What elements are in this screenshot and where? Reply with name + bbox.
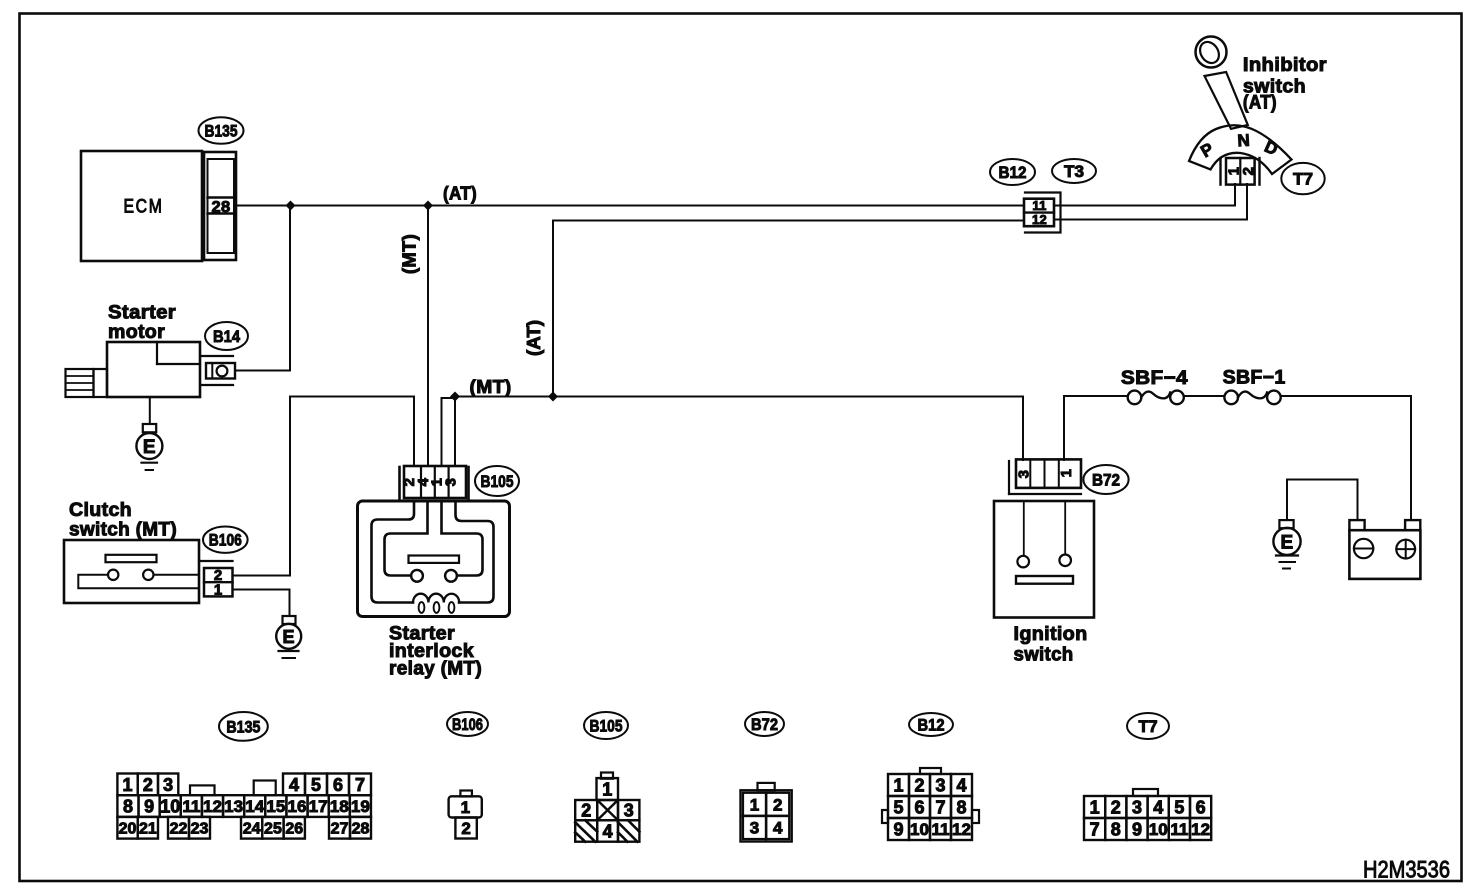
svg-text:16: 16 [288, 797, 307, 816]
svg-text:3: 3 [750, 819, 759, 838]
svg-text:12: 12 [1032, 212, 1047, 227]
svg-text:3: 3 [624, 801, 634, 821]
svg-text:12: 12 [1191, 820, 1210, 839]
svg-text:5: 5 [1174, 797, 1184, 817]
svg-text:E: E [1281, 533, 1294, 554]
svg-text:2: 2 [1111, 797, 1121, 817]
svg-text:1: 1 [1058, 469, 1075, 478]
svg-text:2: 2 [461, 819, 470, 838]
svg-text:3: 3 [935, 775, 945, 795]
svg-text:28: 28 [352, 821, 370, 838]
svg-text:1: 1 [750, 795, 759, 814]
svg-text:22: 22 [170, 821, 188, 838]
svg-text:5: 5 [311, 775, 321, 795]
svg-text:11: 11 [932, 820, 950, 839]
svg-text:switch (MT): switch (MT) [69, 520, 177, 541]
svg-text:28: 28 [212, 199, 231, 216]
svg-text:8: 8 [1111, 819, 1121, 839]
svg-text:17: 17 [309, 797, 328, 816]
svg-text:B12: B12 [918, 715, 945, 734]
svg-text:ECM: ECM [124, 197, 164, 218]
svg-text:(MT): (MT) [470, 377, 512, 397]
svg-text:B12: B12 [999, 163, 1027, 182]
svg-text:D: D [1262, 137, 1281, 159]
svg-text:SBF−4: SBF−4 [1121, 368, 1188, 389]
svg-text:18: 18 [330, 797, 349, 816]
svg-text:1: 1 [461, 798, 471, 817]
svg-text:(MT): (MT) [400, 234, 420, 274]
svg-text:2: 2 [1240, 167, 1257, 176]
svg-text:15: 15 [266, 797, 285, 816]
svg-text:Clutch: Clutch [69, 500, 132, 521]
svg-text:(AT): (AT) [524, 320, 544, 356]
svg-text:B106: B106 [209, 531, 242, 550]
svg-text:4: 4 [603, 821, 613, 841]
svg-text:19: 19 [351, 797, 370, 816]
svg-text:8: 8 [123, 797, 133, 817]
svg-text:2: 2 [773, 795, 782, 814]
svg-text:3: 3 [163, 775, 173, 795]
svg-text:T7: T7 [1139, 717, 1158, 736]
svg-text:B72: B72 [751, 715, 778, 734]
svg-text:11: 11 [182, 797, 200, 816]
svg-text:3: 3 [1132, 797, 1142, 817]
svg-text:6: 6 [333, 775, 343, 795]
svg-text:B135: B135 [226, 717, 260, 736]
svg-text:7: 7 [1090, 819, 1100, 839]
svg-text:23: 23 [191, 821, 209, 838]
svg-text:B105: B105 [481, 472, 514, 491]
svg-text:1: 1 [893, 775, 903, 795]
svg-text:B72: B72 [1092, 470, 1120, 489]
svg-text:2: 2 [581, 801, 591, 821]
svg-text:26: 26 [285, 821, 303, 838]
svg-text:B14: B14 [213, 327, 240, 346]
svg-text:1: 1 [602, 780, 612, 800]
svg-text:Inhibitor: Inhibitor [1243, 55, 1327, 76]
svg-text:10: 10 [160, 797, 180, 817]
svg-text:B135: B135 [205, 121, 238, 140]
svg-text:switch: switch [1014, 645, 1074, 666]
svg-text:5: 5 [893, 797, 903, 817]
svg-text:Starter: Starter [108, 303, 176, 324]
svg-text:E: E [143, 437, 156, 458]
svg-text:24: 24 [243, 821, 261, 838]
svg-text:T3: T3 [1064, 162, 1084, 181]
svg-text:10: 10 [1149, 820, 1168, 839]
svg-text:E: E [283, 627, 295, 647]
svg-text:1: 1 [123, 775, 133, 795]
svg-text:20: 20 [119, 821, 137, 838]
svg-text:SBF−1: SBF−1 [1223, 368, 1286, 389]
svg-text:1: 1 [214, 582, 223, 599]
svg-text:1: 1 [1090, 797, 1100, 817]
svg-text:12: 12 [952, 820, 971, 839]
svg-text:2: 2 [914, 775, 924, 795]
svg-text:13: 13 [224, 797, 243, 816]
svg-text:N: N [1237, 131, 1251, 151]
svg-text:6: 6 [1196, 797, 1206, 817]
svg-text:(AT): (AT) [443, 184, 477, 204]
svg-text:12: 12 [203, 797, 222, 816]
svg-text:2: 2 [143, 775, 153, 795]
svg-text:4: 4 [773, 819, 783, 838]
svg-text:27: 27 [331, 821, 349, 838]
svg-text:8: 8 [956, 797, 966, 817]
svg-text:9: 9 [144, 797, 154, 817]
svg-text:9: 9 [893, 819, 903, 839]
svg-text:3: 3 [1016, 470, 1033, 479]
svg-text:14: 14 [245, 797, 264, 816]
svg-text:21: 21 [139, 821, 157, 838]
svg-text:H2M3536: H2M3536 [1363, 857, 1450, 884]
svg-text:4: 4 [289, 775, 299, 795]
svg-text:(AT): (AT) [1243, 93, 1277, 114]
svg-text:relay (MT): relay (MT) [389, 659, 482, 680]
svg-text:7: 7 [355, 775, 365, 795]
svg-text:B106: B106 [452, 715, 483, 734]
svg-text:6: 6 [914, 797, 924, 817]
svg-text:3: 3 [443, 478, 460, 487]
svg-text:4: 4 [1153, 797, 1163, 817]
svg-text:25: 25 [264, 821, 282, 838]
svg-text:7: 7 [935, 797, 945, 817]
svg-text:motor: motor [108, 322, 165, 343]
svg-text:11: 11 [1032, 198, 1046, 213]
svg-text:10: 10 [910, 820, 929, 839]
svg-text:B105: B105 [590, 716, 623, 735]
svg-text:4: 4 [956, 775, 966, 795]
svg-text:T7: T7 [1293, 170, 1313, 189]
svg-text:Ignition: Ignition [1014, 624, 1088, 645]
svg-text:P: P [1197, 139, 1217, 161]
svg-text:9: 9 [1132, 819, 1142, 839]
svg-text:11: 11 [1170, 820, 1188, 839]
